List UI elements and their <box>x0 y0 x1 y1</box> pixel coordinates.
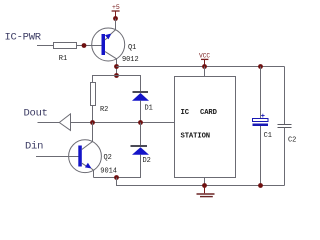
resistor R1 <box>54 43 77 64</box>
wire <box>284 67 286 125</box>
svg-text:IC: IC <box>181 109 190 117</box>
svg-text:9014: 9014 <box>100 168 117 176</box>
wire <box>204 178 206 186</box>
capacitor C2 <box>278 125 297 145</box>
svg-text:9012: 9012 <box>122 56 139 64</box>
wire <box>140 123 142 146</box>
diode D1 <box>132 91 153 113</box>
wire <box>92 123 94 142</box>
wire <box>260 67 262 119</box>
wire bottom rail <box>117 178 285 186</box>
svg-text:D2: D2 <box>143 157 151 165</box>
ground <box>197 186 215 197</box>
wire <box>140 101 142 123</box>
wire <box>37 45 54 47</box>
transistor Q2 <box>69 140 117 176</box>
wire <box>260 126 262 186</box>
node junction dot R1-Q1 base <box>82 43 87 48</box>
node junction dot +5 <box>113 16 118 21</box>
svg-text:C2: C2 <box>288 137 296 145</box>
IC CARD STATION box U1 <box>175 77 236 178</box>
svg-text:CARD: CARD <box>200 109 218 117</box>
wire VCC rail <box>117 66 285 68</box>
svg-text:R2: R2 <box>100 106 108 114</box>
wire <box>93 76 141 92</box>
svg-text:Din: Din <box>25 141 43 153</box>
transistor Q1 <box>92 28 139 64</box>
wire <box>284 128 286 186</box>
wire mid rail <box>71 122 175 124</box>
node junction dot VCC <box>202 64 207 69</box>
svg-text:STATION: STATION <box>181 132 211 140</box>
diode D2 <box>131 145 151 165</box>
node junction dot ground <box>202 183 207 188</box>
svg-text:+5: +5 <box>112 4 120 11</box>
wire <box>117 155 141 178</box>
wire <box>116 59 118 76</box>
resistor R2 <box>91 83 109 115</box>
capacitor C1 <box>253 113 272 140</box>
node junction dot D1-D2 <box>138 120 143 125</box>
node junction dot bottom left <box>114 175 119 180</box>
wire <box>77 45 102 47</box>
wire <box>94 177 117 179</box>
svg-text:Dout: Dout <box>24 108 48 120</box>
wire <box>36 156 78 158</box>
svg-text:Q1: Q1 <box>128 44 136 52</box>
power +5 <box>112 4 120 19</box>
wire <box>115 19 117 30</box>
wire <box>93 170 95 177</box>
wire <box>204 67 206 77</box>
wire <box>38 122 60 124</box>
svg-text:VCC: VCC <box>199 52 210 59</box>
buffer triangle Dout <box>59 114 70 130</box>
svg-text:IC-PWR: IC-PWR <box>5 32 42 44</box>
svg-text:Q2: Q2 <box>104 154 112 162</box>
svg-text:C1: C1 <box>264 132 272 140</box>
node junction dot C1 top <box>258 64 263 69</box>
node junction dot Q1 collector / VCC rail <box>114 64 119 69</box>
svg-text:D1: D1 <box>145 105 153 113</box>
node junction dot clamp branch <box>114 73 119 78</box>
wire <box>92 106 94 123</box>
node junction dot C1 bottom <box>258 183 263 188</box>
svg-text:R1: R1 <box>59 55 67 63</box>
node junction dot Dout-R2-Q2 <box>90 120 95 125</box>
power VCC <box>199 52 210 66</box>
